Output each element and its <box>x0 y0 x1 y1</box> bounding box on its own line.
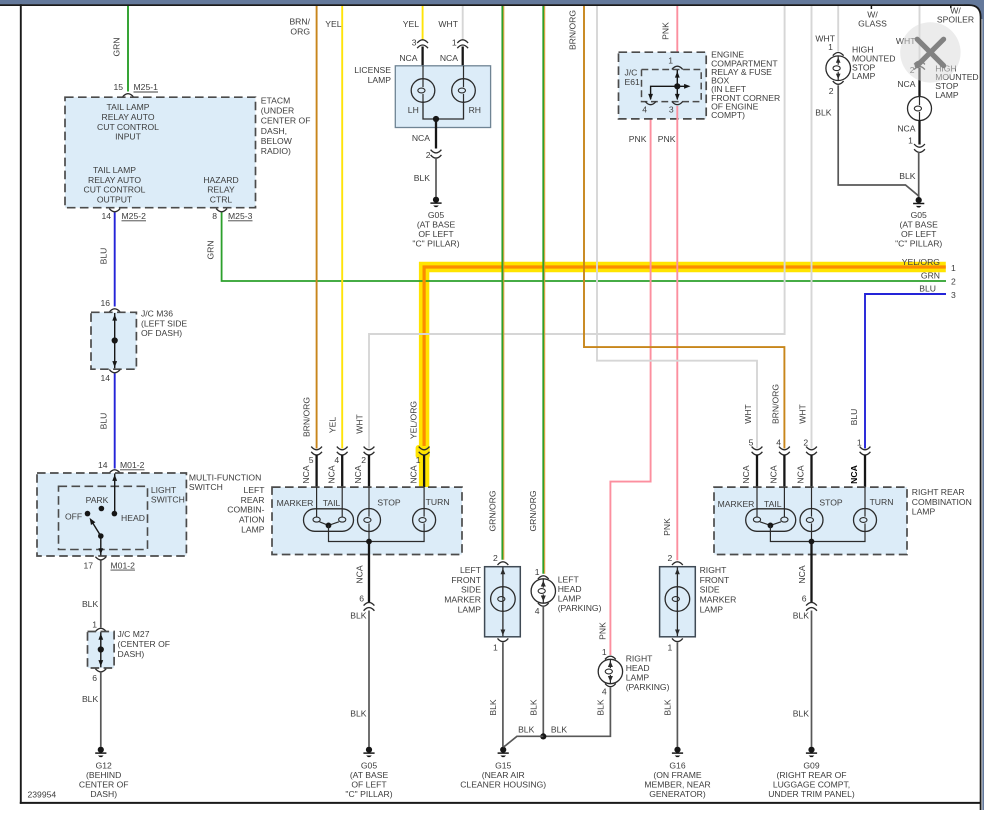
svg-text:BLU: BLU <box>849 409 859 426</box>
wire NCA into spoiler lamp <box>918 68 920 98</box>
junction connector J/C M27 box <box>88 632 115 669</box>
junction dot of license lamp output <box>433 116 439 122</box>
marker lamp internal wire with arrows <box>502 567 504 636</box>
svg-text:4: 4 <box>602 687 607 697</box>
svg-text:COMBIN-: COMBIN- <box>227 505 264 515</box>
svg-text:1: 1 <box>951 263 956 273</box>
svg-text:RIGHT: RIGHT <box>626 654 653 664</box>
svg-text:2: 2 <box>668 553 673 563</box>
wire NCA pin5 into right lamp box <box>756 455 758 489</box>
connector arc pin 14 below J/C M36 box <box>109 370 120 373</box>
svg-text:DASH): DASH) <box>118 649 145 659</box>
switch contact OFF <box>85 511 91 517</box>
svg-text:PNK: PNK <box>629 134 647 144</box>
ground bus junction dot <box>540 733 546 739</box>
svg-text:BLK: BLK <box>793 610 810 620</box>
svg-text:LIGHT: LIGHT <box>151 485 177 495</box>
svg-text:PARK: PARK <box>86 495 109 505</box>
svg-text:2: 2 <box>426 150 431 160</box>
svg-text:17: 17 <box>83 560 93 570</box>
pin 2 of glass high mounted stop lamp <box>833 81 844 84</box>
svg-text:LAMP: LAMP <box>626 673 650 683</box>
svg-text:NCA: NCA <box>301 465 311 483</box>
wire NCA from license lamp to connector 2 <box>435 119 437 149</box>
J/C E61 inner dashed box <box>642 70 702 102</box>
wire BLK from pin 6 to ground G05 left <box>368 611 370 747</box>
internal ground bus of right lamp <box>770 525 865 541</box>
highlight band for YEL/ORG wire (vertical run to left rear lamp) <box>419 262 429 487</box>
spoiler high mounted stop lamp bulb <box>908 97 932 121</box>
svg-text:CENTER OF: CENTER OF <box>261 116 311 126</box>
junction dot on internal bus (right) <box>809 539 815 545</box>
svg-text:OF DASH): OF DASH) <box>141 328 182 338</box>
junction dot inside stadium (right) <box>768 523 774 529</box>
svg-text:3: 3 <box>669 105 674 115</box>
svg-text:ORG: ORG <box>290 27 310 37</box>
svg-text:SWITCH: SWITCH <box>189 482 223 492</box>
wire BLK from switch to J/C M27 <box>100 561 102 628</box>
ground G05 (right, shared) <box>916 197 922 203</box>
svg-text:14: 14 <box>101 211 111 221</box>
internal wire of J/C M36 with arrows <box>114 313 116 368</box>
svg-text:INPUT: INPUT <box>115 132 142 142</box>
black border left <box>20 4 22 804</box>
wire NCA pin1 into left lamp box <box>423 455 425 489</box>
svg-text:2: 2 <box>803 438 808 448</box>
connector arc M01-2 at multi-function switch box edge <box>109 470 120 473</box>
svg-text:"C" PILLAR): "C" PILLAR) <box>412 238 459 248</box>
svg-text:CTRL: CTRL <box>210 195 233 205</box>
svg-text:2: 2 <box>829 86 834 96</box>
wire BLK from left head lamp to ground bus <box>542 607 544 736</box>
tail filament <box>339 517 346 522</box>
wire GRN from top to ETACM pin 15 <box>127 5 129 92</box>
multi-function switch outer box <box>37 473 186 556</box>
switch contact HEAD <box>112 511 118 517</box>
svg-text:BLK: BLK <box>596 699 606 716</box>
svg-text:1: 1 <box>92 619 97 629</box>
wire WHT from top to license lamp RH pin 1 <box>462 5 464 40</box>
license lamp LH bulb <box>411 79 435 103</box>
right rear combination lamp box <box>714 487 907 554</box>
wire NCA from left lamp to pin 6 <box>368 542 370 603</box>
svg-text:5: 5 <box>749 438 754 448</box>
svg-text:4: 4 <box>642 105 647 115</box>
switch wire from pin 14 into switch with arrow <box>114 474 116 514</box>
svg-text:NCA: NCA <box>326 465 336 483</box>
switch lever from pivot toward OFF <box>91 521 101 537</box>
svg-text:BELOW: BELOW <box>261 136 293 146</box>
svg-text:(LEFT SIDE: (LEFT SIDE <box>141 318 187 328</box>
svg-text:4: 4 <box>535 606 540 616</box>
slate top bar <box>0 0 984 4</box>
svg-text:STOP: STOP <box>377 497 401 507</box>
stop bulb of left lamp <box>358 509 381 532</box>
svg-text:LAMP: LAMP <box>700 604 724 614</box>
svg-text:BLK: BLK <box>82 694 99 704</box>
svg-text:1: 1 <box>602 647 607 657</box>
marker filament <box>313 517 320 522</box>
svg-text:COMBINATION: COMBINATION <box>912 497 972 507</box>
svg-text:MARKER: MARKER <box>444 594 481 604</box>
glass high mounted stop lamp bulb <box>826 56 851 81</box>
junction dot on internal bus <box>366 539 372 545</box>
pin 4 of left head lamp <box>538 603 549 606</box>
wire PNK from E61 pin 4 to right head lamp <box>610 106 650 655</box>
svg-text:WHT: WHT <box>354 413 364 433</box>
svg-text:1: 1 <box>493 642 498 652</box>
svg-text:1: 1 <box>828 42 833 52</box>
junction dot inside stadium <box>326 523 332 529</box>
wire WHT from top at x784 jog left to left lamp pin 2 <box>369 5 785 449</box>
svg-text:YEL/ORG: YEL/ORG <box>902 257 941 267</box>
svg-text:14: 14 <box>98 460 108 470</box>
svg-text:GLASS: GLASS <box>858 19 887 29</box>
svg-text:HEAD: HEAD <box>626 663 650 673</box>
svg-text:RH: RH <box>469 105 481 115</box>
svg-text:YEL/ORG: YEL/ORG <box>409 401 419 440</box>
svg-text:YEL: YEL <box>328 417 338 433</box>
pin 4 of J/C E61 <box>645 102 656 105</box>
svg-text:(PARKING): (PARKING) <box>626 682 670 692</box>
svg-text:(UNDER: (UNDER <box>261 105 294 115</box>
svg-text:BLK: BLK <box>414 173 431 183</box>
svg-text:M01-2: M01-2 <box>120 460 145 470</box>
internal link marker/tail to junction <box>320 522 339 526</box>
connector arc M01-2 below switch box <box>95 557 106 560</box>
svg-text:CUT CONTROL: CUT CONTROL <box>84 185 146 195</box>
svg-text:J/C: J/C <box>625 67 638 77</box>
J/C E61 outer box <box>619 52 707 119</box>
svg-text:PNK: PNK <box>658 134 676 144</box>
svg-text:3: 3 <box>412 38 417 48</box>
svg-text:PNK: PNK <box>662 518 672 536</box>
svg-text:6: 6 <box>92 673 97 683</box>
svg-text:GRN: GRN <box>921 270 940 280</box>
pin 3 of J/C E61 <box>672 102 683 105</box>
svg-text:4: 4 <box>334 455 339 465</box>
marker/tail dual bulb stadium (right) <box>746 509 796 532</box>
pin 1 below right marker box <box>672 638 683 641</box>
connector arc pin 6 below J/C M27 box <box>95 669 106 672</box>
left head lamp bulb with internal arrows <box>531 579 555 603</box>
wire BRN/ORG from top to left lamp pin 5 <box>316 5 318 449</box>
svg-text:SWITCH: SWITCH <box>151 495 185 505</box>
svg-text:HEAD: HEAD <box>558 584 582 594</box>
svg-text:WHT: WHT <box>743 403 753 423</box>
svg-text:NCA: NCA <box>353 465 363 483</box>
wire NCA from right lamp to pin 6 <box>810 542 812 603</box>
svg-text:CLEANER HOUSING): CLEANER HOUSING) <box>460 779 546 789</box>
wire BLK from right marker to ground G16 <box>676 642 678 747</box>
wire joining LH and RH bulbs to output <box>423 102 464 119</box>
svg-text:M25-1: M25-1 <box>134 82 159 92</box>
svg-text:HAZARD: HAZARD <box>203 175 238 185</box>
wire YEL/ORG orange core horizontal run <box>423 265 946 268</box>
svg-text:M25-3: M25-3 <box>228 211 253 221</box>
connector arc pin 16 at J/C M36 box edge <box>109 309 120 312</box>
svg-text:8: 8 <box>212 211 217 221</box>
branch stub W/ GLASS <box>870 5 872 10</box>
white rounded content corner <box>964 5 981 19</box>
close button X glyph <box>917 39 943 65</box>
junction dot inside J/C M27 <box>98 646 104 652</box>
svg-text:DASH,: DASH, <box>261 126 287 136</box>
svg-text:LAMP: LAMP <box>912 507 936 517</box>
pin 1 below marker box <box>498 638 509 641</box>
svg-text:NCA: NCA <box>849 465 859 484</box>
connector arc M25-2 below ETACM box <box>109 209 120 212</box>
svg-text:NCA: NCA <box>796 465 806 483</box>
svg-text:NCA: NCA <box>399 53 417 63</box>
svg-text:PNK: PNK <box>661 22 671 40</box>
svg-text:LEFT: LEFT <box>558 574 580 584</box>
junction dot inside J/C M36 <box>112 337 118 343</box>
svg-text:5: 5 <box>309 455 314 465</box>
wire WHT from top to glass high mounted stop lamp <box>837 5 839 52</box>
svg-text:6: 6 <box>802 593 807 603</box>
E61 internal branch with right arrow and down leg <box>651 86 688 99</box>
svg-text:BRN/ORG: BRN/ORG <box>567 10 577 50</box>
svg-text:MULTI-FUNCTION: MULTI-FUNCTION <box>189 473 261 483</box>
marker filament (right) <box>753 517 760 522</box>
turn bulb of left lamp <box>413 509 436 532</box>
svg-text:J/C M27: J/C M27 <box>118 629 150 639</box>
svg-text:MARKER: MARKER <box>277 498 314 508</box>
svg-text:LEFT: LEFT <box>243 485 265 495</box>
ground G05 (license) <box>433 197 439 203</box>
svg-text:DASH): DASH) <box>90 789 117 799</box>
svg-text:LEFT: LEFT <box>460 565 482 575</box>
internal link marker/tail to junction (right) <box>760 522 781 526</box>
svg-text:2: 2 <box>493 553 498 563</box>
svg-text:SPOILER: SPOILER <box>937 15 974 25</box>
marker lamp bulb <box>491 587 516 612</box>
svg-text:RIGHT: RIGHT <box>700 565 727 575</box>
svg-text:BLK: BLK <box>662 699 672 716</box>
svg-text:RIGHT REAR: RIGHT REAR <box>912 487 965 497</box>
svg-text:WHT: WHT <box>438 19 458 29</box>
svg-text:TURN: TURN <box>426 497 450 507</box>
svg-text:NCA: NCA <box>797 565 807 583</box>
wire BRN/ORG from top jog right to right lamp pin 4 <box>584 5 784 449</box>
svg-text:1: 1 <box>535 567 540 577</box>
svg-text:1: 1 <box>416 455 421 465</box>
svg-text:TAIL: TAIL <box>764 499 782 509</box>
svg-text:J/C M36: J/C M36 <box>141 309 173 319</box>
svg-text:NCA: NCA <box>769 465 779 483</box>
ground G16 <box>674 747 680 753</box>
svg-text:1: 1 <box>668 56 673 66</box>
svg-text:FRONT: FRONT <box>451 575 481 585</box>
wire BLK from connector 2 to ground G05 <box>435 158 437 197</box>
connector arc M25-1 at ETACM box edge <box>123 94 134 97</box>
pin 4 of right head lamp <box>605 684 616 687</box>
wire BLK from spoiler lamp to ground G05 right <box>918 152 920 197</box>
connector arc M25-3 below ETACM box <box>216 209 227 212</box>
license lamp box <box>395 66 490 128</box>
svg-text:FRONT: FRONT <box>700 575 730 585</box>
svg-text:NCA: NCA <box>741 465 751 483</box>
ground G09 <box>808 747 814 753</box>
svg-text:(CENTER OF: (CENTER OF <box>118 639 171 649</box>
svg-text:STOP: STOP <box>819 498 843 508</box>
svg-text:BLK: BLK <box>551 725 568 735</box>
right marker bulb <box>665 587 690 612</box>
highlight blob around left rear lamp TURN pin 1 connector <box>416 445 430 459</box>
wire BLK from right head lamp to ground bus <box>543 688 610 737</box>
svg-text:2: 2 <box>951 277 956 287</box>
svg-text:4: 4 <box>776 438 781 448</box>
svg-text:ATION: ATION <box>239 515 265 525</box>
svg-text:NCA: NCA <box>440 53 458 63</box>
turn bulb of right lamp <box>854 509 877 532</box>
svg-text:BRN/: BRN/ <box>289 17 310 27</box>
svg-text:3: 3 <box>951 290 956 300</box>
svg-text:LAMP: LAMP <box>458 604 482 614</box>
svg-text:SIDE: SIDE <box>700 585 720 595</box>
ground G15 <box>500 747 506 753</box>
svg-text:1: 1 <box>908 136 913 146</box>
svg-text:YEL: YEL <box>325 19 341 29</box>
svg-text:PNK: PNK <box>597 622 607 640</box>
svg-text:NCA: NCA <box>897 124 915 134</box>
svg-text:BLU: BLU <box>98 248 108 265</box>
wire YEL from top to left lamp pin 4 <box>341 5 343 449</box>
wire BLU from M25-2 to J/C M36 pin 16 <box>114 213 116 307</box>
svg-text:1: 1 <box>668 642 673 652</box>
wire WHT from top jog right to right lamp pin 5 <box>597 5 757 449</box>
wire WHT from top to right lamp pin 2 <box>811 5 813 449</box>
light switch inner dashed box <box>59 486 148 549</box>
wire NCA pin4 into right lamp box <box>783 455 785 489</box>
slate corner patch top-right <box>964 0 984 19</box>
wire BLK from marker to ground G15 <box>502 642 504 747</box>
svg-text:BLK: BLK <box>350 708 367 718</box>
svg-text:1: 1 <box>452 38 457 48</box>
wire NCA pin5 into left lamp box <box>315 455 317 489</box>
internal pin feed wires of right lamp <box>756 487 758 517</box>
ground G05 (left rear) <box>366 747 372 753</box>
stop bulb of right lamp <box>800 509 823 532</box>
wire BLK from pin 6 to ground G09 <box>811 611 813 747</box>
wire NCA into license lamp LH <box>421 47 423 67</box>
svg-text:TAIL LAMP: TAIL LAMP <box>93 165 136 175</box>
svg-text:TAIL: TAIL <box>323 498 341 508</box>
svg-text:GRN: GRN <box>206 240 216 259</box>
svg-text:M01-2: M01-2 <box>111 560 136 570</box>
wire NCA pin1 into right lamp box <box>864 455 866 489</box>
svg-text:RELAY: RELAY <box>207 185 235 195</box>
svg-text:BLK: BLK <box>793 708 810 718</box>
svg-text:LAMP: LAMP <box>368 75 392 85</box>
svg-text:TAIL LAMP: TAIL LAMP <box>107 102 150 112</box>
svg-text:UNDER TRIM PANEL): UNDER TRIM PANEL) <box>768 789 855 799</box>
svg-text:LICENSE: LICENSE <box>354 65 391 75</box>
svg-text:"C" PILLAR): "C" PILLAR) <box>345 789 392 799</box>
svg-text:BLK: BLK <box>528 699 538 716</box>
svg-text:BLK: BLK <box>350 610 367 620</box>
wire PNK from E61 pin 3 to right front side marker <box>676 106 678 560</box>
black border bottom <box>20 802 982 804</box>
right head lamp bulb with internal arrows <box>598 659 622 683</box>
svg-text:HEAD: HEAD <box>121 513 145 523</box>
svg-text:16: 16 <box>100 298 110 308</box>
wire PNK from top to J/C E61 pin 1 <box>676 5 678 65</box>
svg-text:CUT CONTROL: CUT CONTROL <box>97 122 159 132</box>
license lamp RH bulb <box>452 79 476 103</box>
ground bus diagonal to G15 <box>503 736 543 747</box>
wire NCA into license lamp RH <box>462 47 464 67</box>
internal ground bus of left lamp <box>329 525 425 541</box>
wire GRN/ORG from top to left head lamp <box>542 5 544 574</box>
svg-text:BLK: BLK <box>815 107 832 117</box>
svg-text:GRN: GRN <box>112 37 122 56</box>
svg-text:NCA: NCA <box>412 133 430 143</box>
left front side marker lamp box <box>485 567 521 637</box>
wire GRN/ORG from top to left front side marker <box>501 5 503 560</box>
connector arc pin 1 at J/C M27 box edge <box>95 628 106 631</box>
svg-text:NCA: NCA <box>355 565 365 583</box>
svg-text:15: 15 <box>113 82 123 92</box>
ETACM control unit box <box>65 97 256 208</box>
E61 internal wire with arrows <box>676 70 678 99</box>
close button circle <box>900 22 960 82</box>
svg-text:LAMP: LAMP <box>935 90 959 100</box>
svg-text:RADIO): RADIO) <box>261 146 291 156</box>
wire NCA below spoiler lamp <box>918 121 920 145</box>
svg-text:BLK: BLK <box>899 171 916 181</box>
svg-text:OFF: OFF <box>65 512 82 522</box>
svg-text:SIDE: SIDE <box>461 585 481 595</box>
svg-text:BRN/ORG: BRN/ORG <box>770 384 780 424</box>
svg-text:BLK: BLK <box>518 725 535 735</box>
wire BLU from J/C M36 to light switch M01-2 pin 14 <box>114 374 116 469</box>
E61 junction dot <box>674 83 680 89</box>
svg-text:LAMP: LAMP <box>558 593 582 603</box>
svg-text:NCA: NCA <box>897 79 915 89</box>
svg-text:RELAY AUTO: RELAY AUTO <box>88 175 141 185</box>
svg-text:6: 6 <box>359 593 364 603</box>
right marker internal wire with arrows <box>676 567 678 636</box>
svg-text:14: 14 <box>100 373 110 383</box>
svg-text:REAR: REAR <box>241 495 265 505</box>
tail filament (right) <box>781 517 788 522</box>
svg-text:BLU: BLU <box>919 283 936 293</box>
svg-text:BLK: BLK <box>488 699 498 716</box>
svg-text:YEL: YEL <box>403 19 419 29</box>
ground G12 <box>98 747 104 753</box>
svg-text:LAMP: LAMP <box>241 524 265 534</box>
right front side marker lamp box <box>660 567 696 637</box>
svg-text:GENERATOR): GENERATOR) <box>649 789 706 799</box>
svg-text:BLU: BLU <box>98 413 108 430</box>
svg-text:(PARKING): (PARKING) <box>558 603 602 613</box>
wire GRN from M25-3 down and right across page (hazard relay ctrl) <box>222 213 946 282</box>
highlight band for YEL/ORG turn-signal wire (horizontal run) <box>419 262 946 272</box>
wire BLK from glass lamp to ground G05 right <box>838 85 919 196</box>
wire BLK from J/C M27 to ground G12 <box>100 673 102 747</box>
wire NCA pin2 into right lamp box <box>810 455 812 489</box>
svg-text:OUTPUT: OUTPUT <box>97 194 133 204</box>
svg-text:239954: 239954 <box>28 790 57 800</box>
wire NCA pin2 into left lamp box <box>368 455 370 489</box>
wire YEL/ORG orange core vertical run <box>423 266 426 447</box>
internal pin feed wires of left lamp <box>316 487 318 517</box>
slate right strip <box>982 0 984 810</box>
switch pivot dot and output wire <box>98 533 104 539</box>
svg-text:MARKER: MARKER <box>700 594 737 604</box>
